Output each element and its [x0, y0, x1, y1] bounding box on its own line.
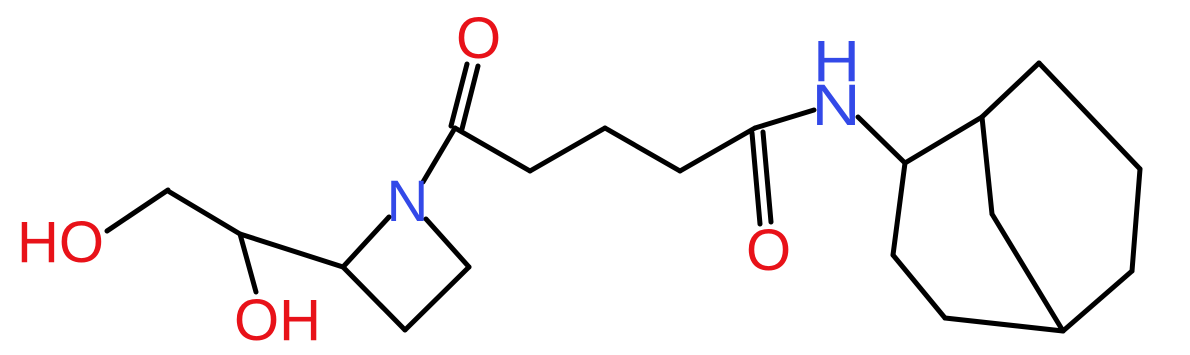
- svg-text:OH: OH: [234, 288, 321, 353]
- svg-text:N: N: [387, 169, 429, 234]
- svg-text:N: N: [812, 73, 861, 138]
- svg-text:O: O: [456, 6, 501, 71]
- svg-text:O: O: [746, 218, 791, 283]
- svg-text:HO: HO: [17, 210, 104, 275]
